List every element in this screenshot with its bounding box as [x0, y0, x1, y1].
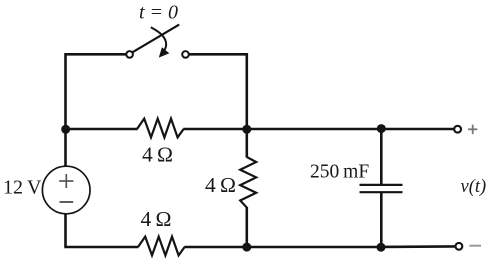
svg-text:t = 0: t = 0	[139, 2, 178, 24]
svg-text:12 V: 12 V	[3, 177, 42, 199]
svg-text:v(t): v(t)	[461, 177, 487, 197]
node A (left middle junction)	[61, 125, 70, 134]
wire capacitor node to plus terminal	[381, 128, 454, 131]
resistor R3 4ohm (vertical middle)	[240, 129, 256, 247]
terminal minus (open circle)	[456, 243, 463, 250]
svg-text:4 Ω: 4 Ω	[141, 207, 172, 231]
wire middle node to capacitor node	[247, 128, 381, 131]
plus sign	[468, 125, 477, 135]
minus sign	[469, 245, 481, 247]
svg-text:4 Ω: 4 Ω	[142, 143, 173, 167]
svg-text:4 Ω: 4 Ω	[205, 173, 236, 197]
node C (capacitor top junction)	[377, 124, 386, 133]
switch SW1 (t = 0)	[126, 25, 189, 58]
node E (capacitor bottom junction)	[377, 243, 386, 252]
resistor R2 4ohm (bottom horizontal)	[138, 237, 185, 256]
terminal plus (open circle)	[454, 126, 461, 133]
wire bottom row right of R2 to bottom node	[184, 246, 247, 249]
wire top-left loop: left vertical + top horizontal to switch	[66, 54, 127, 129]
node B (middle top junction)	[242, 125, 251, 134]
wire bottom row left segment	[64, 246, 138, 249]
wire capacitor bottom node to minus terminal	[381, 245, 456, 248]
wire middle row left segment	[66, 128, 138, 131]
capacitor C1 250mF	[360, 129, 403, 247]
wire middle row right of R1 to middle node	[183, 128, 247, 131]
voltage source V1 12V	[42, 129, 90, 247]
node D (bottom middle junction)	[242, 243, 251, 252]
wire bottom node to capacitor bottom node	[247, 246, 381, 249]
svg-text:250 mF: 250 mF	[310, 162, 369, 183]
wire switch right to middle node	[189, 54, 247, 129]
resistor R1 4ohm (top horizontal)	[137, 119, 184, 138]
